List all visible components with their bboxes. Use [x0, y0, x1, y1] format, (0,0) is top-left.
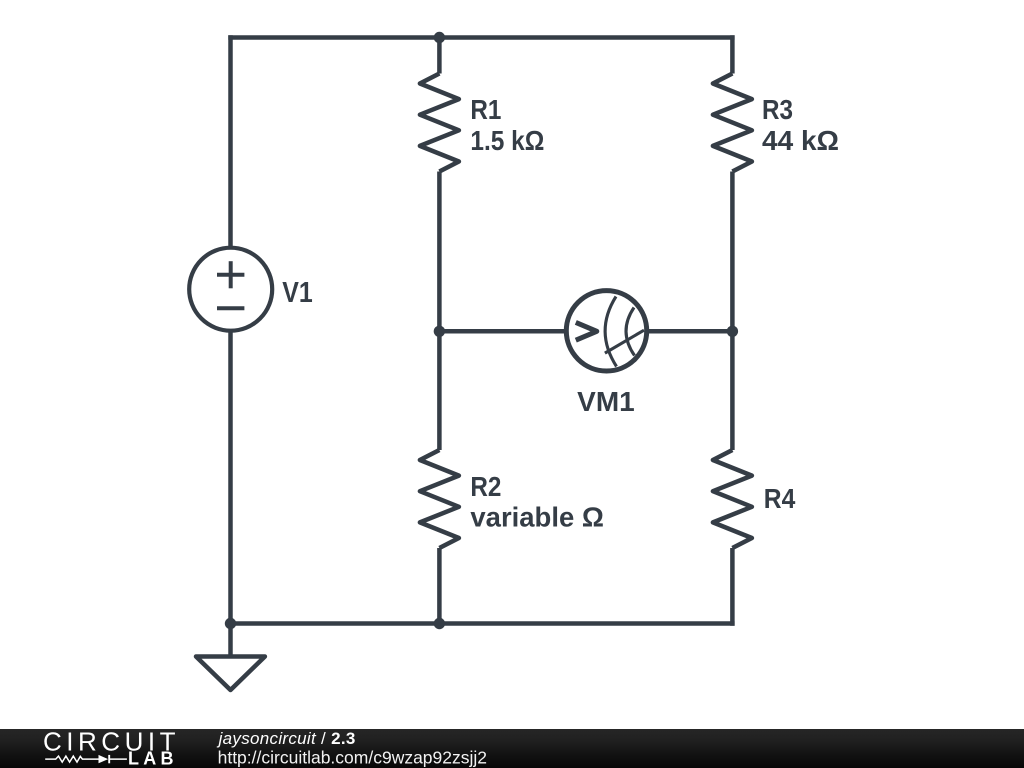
- resistor R3: [713, 74, 752, 172]
- wire right vertical upper lead: [730, 35, 735, 73]
- svg-text:R4: R4: [764, 483, 796, 514]
- svg-text:R1: R1: [470, 94, 501, 125]
- node junction middle: [434, 326, 445, 337]
- logo resistor-diode glyph: [45, 755, 127, 763]
- svg-text:R2: R2: [470, 471, 501, 502]
- svg-text:LAB: LAB: [128, 749, 174, 768]
- resistor R4: [713, 450, 752, 548]
- voltage source V1: [189, 248, 272, 331]
- svg-text:V1: V1: [282, 277, 313, 309]
- node junction bottom left: [225, 618, 236, 629]
- wire top horizontal: [228, 35, 734, 40]
- node junction top: [434, 32, 445, 43]
- node junction bottom middle: [434, 618, 445, 629]
- node junction right: [727, 326, 738, 337]
- wire mid node to R2: [437, 331, 442, 450]
- wire right between R3 and right node: [730, 172, 735, 332]
- ground: [196, 624, 265, 691]
- wire below R2: [437, 548, 442, 624]
- wire bottom horizontal: [231, 621, 735, 626]
- wire right node to R4: [730, 331, 735, 450]
- wire voltmeter to right node: [646, 329, 732, 334]
- svg-text:R3: R3: [762, 94, 793, 125]
- resistor R1: [420, 74, 459, 172]
- svg-text:1.5 kΩ: 1.5 kΩ: [470, 125, 544, 156]
- wire middle between R1 and mid node: [437, 172, 442, 332]
- wire left vertical upper: [228, 35, 233, 249]
- svg-text:jaysoncircuit / 2.3: jaysoncircuit / 2.3: [217, 729, 356, 748]
- wire mid node to voltmeter: [439, 329, 567, 334]
- resistor R2: [420, 450, 459, 548]
- wire left vertical lower: [228, 330, 233, 624]
- wire below R4: [730, 548, 735, 626]
- svg-text:44 kΩ: 44 kΩ: [762, 125, 839, 156]
- svg-text:VM1: VM1: [577, 386, 635, 417]
- svg-text:variable Ω: variable Ω: [470, 502, 604, 533]
- voltmeter VM1: [566, 291, 646, 371]
- svg-text:http://circuitlab.com/c9wzap92: http://circuitlab.com/c9wzap92zsjj2: [218, 747, 487, 767]
- wire middle upper lead: [437, 38, 442, 74]
- footer bar: [0, 729, 1024, 768]
